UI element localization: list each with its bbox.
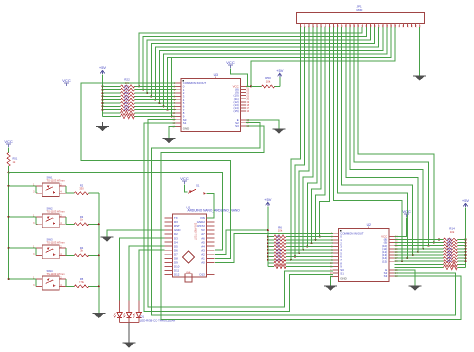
supply +5V R14 bus <box>462 198 470 240</box>
svg-text:(15): (15) <box>382 259 387 263</box>
resistor R51 <box>7 153 18 173</box>
svg-text:U2: U2 <box>367 223 371 227</box>
wire select S2 <box>152 123 456 316</box>
wire select S0 <box>148 120 333 307</box>
resistor R50 <box>251 76 280 88</box>
svg-text:D13: D13 <box>199 273 205 277</box>
svg-text:A0: A0 <box>201 261 205 265</box>
multiplexer U2 <box>330 223 398 282</box>
wires header to mux U3 input network <box>138 27 391 117</box>
svg-text:+5V: +5V <box>99 65 107 70</box>
wire U1 to LED anode 3 <box>139 250 165 300</box>
resistor network R22 <box>101 76 176 119</box>
wire select S3 <box>161 126 461 320</box>
ground header <box>413 76 426 81</box>
svg-text:COMMON IN/OUT: COMMON IN/OUT <box>183 81 207 85</box>
svg-text:7.5k: 7.5k <box>79 280 85 284</box>
svg-text:VCC: VCC <box>226 60 235 65</box>
svg-text:3V3 AREF TEST: 3V3 AREF TEST <box>194 223 197 241</box>
svg-text:COMMON IN/OUT: COMMON IN/OUT <box>340 231 364 235</box>
svg-text:10k: 10k <box>278 229 283 233</box>
ground U2 <box>324 286 337 291</box>
ground U3 <box>163 139 176 144</box>
resistor network R14 <box>395 209 467 270</box>
svg-text:TS-1103 H7mm: TS-1103 H7mm <box>47 241 65 245</box>
svg-text:GND: GND <box>340 277 346 281</box>
pin header JP1 <box>297 5 425 24</box>
wire ladder bus <box>8 173 10 280</box>
resistor network R6 <box>267 208 333 269</box>
svg-text:VCC: VCC <box>180 176 189 181</box>
supply VCC for U2 <box>395 209 411 237</box>
svg-text:S1: S1 <box>340 271 344 275</box>
wire U3 E to ground <box>246 120 279 129</box>
wires header to mux U2 input network <box>290 27 330 261</box>
supply VCC floating <box>62 78 71 86</box>
svg-text:S1: S1 <box>196 184 200 188</box>
svg-text:10k: 10k <box>266 80 271 84</box>
svg-text:330: 330 <box>79 187 84 191</box>
svg-text:S3: S3 <box>384 274 388 278</box>
wire U2 GND to ground <box>331 277 334 286</box>
wire header pin 24 to R50 node <box>251 27 395 86</box>
wire U3 common to U1 A1 <box>81 83 231 258</box>
supply VCC for S1 <box>180 176 189 192</box>
node U3 VCC junction <box>246 85 252 87</box>
svg-text:+5V: +5V <box>264 197 272 202</box>
wire U1 GND to ground <box>107 230 165 237</box>
ground U3 enable <box>273 129 286 134</box>
wire U3 GND to ground <box>169 126 176 138</box>
svg-text:VCC: VCC <box>4 139 13 144</box>
svg-text:TS-1103 H7mm: TS-1103 H7mm <box>47 179 65 183</box>
header JP1 pins <box>301 24 422 28</box>
svg-text:+5V: +5V <box>462 198 470 203</box>
wire select S1 <box>144 123 333 311</box>
wire ladder to U1 A3 <box>9 173 223 251</box>
supply +5V R6 bus <box>264 197 272 237</box>
LED D1 RGB <box>114 301 175 343</box>
svg-text:VCC: VCC <box>62 78 71 83</box>
svg-text:U3: U3 <box>214 73 218 77</box>
switch SW3 <box>8 238 100 259</box>
wires header to mux U2 output network <box>333 27 440 262</box>
supply VCC ladder <box>4 139 13 153</box>
svg-text:USB: USB <box>186 272 191 274</box>
ground LED D1 <box>123 343 136 348</box>
wire resistor return column <box>98 193 100 313</box>
svg-text:VCC: VCC <box>402 209 411 214</box>
multiplexer U3 <box>172 73 249 132</box>
supply +5V for R50 <box>276 68 284 86</box>
wire U1 to LED anode 2 <box>129 246 164 300</box>
svg-text:10k: 10k <box>450 230 455 234</box>
ground U1 <box>100 237 113 242</box>
svg-text:+5V: +5V <box>276 68 284 73</box>
Arduino Nano U1 <box>165 205 241 282</box>
ground below R22 bus <box>96 122 109 131</box>
node ladder junction <box>8 172 10 174</box>
supply VCC for U3 <box>226 60 247 86</box>
svg-text:GND: GND <box>183 126 189 130</box>
wire U2 E to ground <box>395 270 416 286</box>
wire U1 A2 to 5V node <box>215 229 269 254</box>
wire header pin 30 to ground <box>419 27 421 76</box>
svg-text:TS-1103 H7mm: TS-1103 H7mm <box>47 272 65 276</box>
svg-text:TS-1103 H7mm: TS-1103 H7mm <box>47 210 65 214</box>
ground U2 enable <box>409 286 422 291</box>
svg-text:S3: S3 <box>235 124 239 128</box>
switch SW2 <box>8 207 100 228</box>
switch SW1 <box>8 176 99 197</box>
svg-text:D12: D12 <box>174 273 180 277</box>
switch SW4 <box>8 269 100 290</box>
ground ladder column <box>92 314 105 319</box>
wire S1 to U1 VIN <box>206 194 214 218</box>
svg-text:M30: M30 <box>357 8 363 12</box>
switch S1 <box>188 184 206 195</box>
svg-text:(15): (15) <box>234 109 239 113</box>
wire U2 common to U1 A0 <box>215 233 333 262</box>
supply +5V R22 bus <box>99 65 107 86</box>
wire U1 to LED anode 1 <box>120 238 165 300</box>
svg-text:R51: R51 <box>13 157 18 161</box>
svg-text:S1: S1 <box>183 121 187 125</box>
